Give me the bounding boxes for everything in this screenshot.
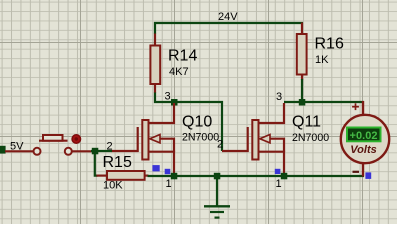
R16 top pin: [301, 23, 303, 36]
wire 5V to button: [5, 150, 34, 152]
pin 2 gate wire: [112, 150, 139, 152]
wire button right contact to junction: [72, 150, 92, 152]
R15 body: [107, 171, 145, 180]
svg-text:4K7: 4K7: [169, 66, 189, 78]
channel bar: [252, 120, 258, 160]
transistor Q11: [248, 103, 330, 177]
voltmeter + mark: [352, 103, 359, 110]
pushbutton left contact: [34, 148, 41, 155]
drain stub: [259, 103, 285, 123]
R15 left pin: [97, 175, 108, 177]
gate electrode: [137, 127, 139, 152]
wire 24V top rail: [154, 22, 303, 24]
node junction 3 (Q10 drain): [171, 99, 178, 106]
pushbutton cap: [43, 135, 63, 141]
resistor R14: [150, 34, 197, 94]
terminal 5V power stub: [0, 146, 6, 154]
source stub: [259, 152, 285, 177]
svg-text:24V: 24V: [218, 11, 238, 23]
R14 bottom pin: [154, 84, 156, 93]
R16 bottom pin: [301, 75, 303, 81]
svg-text:1K: 1K: [315, 54, 329, 66]
svg-text:Q10: Q10: [182, 113, 212, 130]
svg-text:R16: R16: [315, 36, 344, 53]
transistor Q10: [112, 103, 220, 177]
channel bar: [142, 120, 148, 160]
node junction ground tap: [214, 173, 221, 180]
svg-text:Volts: Volts: [350, 144, 377, 156]
voltmeter body: [341, 115, 389, 163]
wire junction to Q10 gate: [91, 150, 112, 152]
ground symbol: [204, 176, 230, 218]
voltmeter - mark: [353, 171, 360, 173]
svg-text:3: 3: [165, 91, 171, 103]
wire rail to R14 top: [154, 22, 156, 34]
node junction at gate/R15: [92, 148, 99, 155]
voltmeter + pin: [362, 101, 364, 115]
gate electrode: [247, 127, 249, 152]
svg-text:1: 1: [276, 178, 282, 190]
mid stub: [270, 139, 284, 152]
wire junction to Q11 drain: [284, 101, 302, 103]
resistor R16: [297, 23, 344, 81]
voltmeter - pin: [362, 164, 364, 177]
source stub: [149, 152, 175, 177]
R16 body: [297, 34, 307, 75]
R15 right pin: [145, 175, 149, 177]
bulk arrow: [150, 135, 160, 143]
wire drain junction to Q11 gate: [174, 102, 222, 151]
resistor R15: [97, 154, 149, 192]
svg-text:2: 2: [217, 139, 223, 151]
marker blue square 4: [365, 172, 371, 179]
node junction Q10 source: [171, 173, 178, 180]
marker blue square 1: [152, 165, 159, 171]
wire ground rail: [148, 175, 365, 177]
svg-text:R15: R15: [103, 154, 132, 171]
marker blue square 3: [275, 169, 281, 174]
R14 top pin: [154, 34, 156, 47]
wire junction down to R15: [95, 151, 98, 176]
svg-text:+0.02: +0.02: [350, 130, 378, 142]
wire R16 bottom to junction: [301, 79, 303, 103]
drain stub: [149, 103, 175, 123]
pushbutton interactive red button: [72, 135, 81, 144]
wire R14 bottom to drain junction: [155, 93, 175, 103]
svg-text:Q11: Q11: [292, 114, 321, 131]
svg-text:2N7000: 2N7000: [182, 131, 219, 143]
node junction Q11 source: [281, 173, 288, 180]
mid stub: [160, 139, 174, 152]
pushbutton right contact: [65, 148, 72, 155]
wire junction to voltmeter +: [302, 101, 364, 103]
svg-text:3: 3: [276, 91, 282, 103]
wire gate pin Q11: [222, 150, 249, 152]
pushbutton actuator bar: [39, 140, 68, 142]
bulk arrow: [260, 135, 270, 143]
svg-text:R14: R14: [168, 48, 197, 65]
R14 body: [150, 46, 160, 85]
voltmeter display window: [347, 128, 381, 142]
svg-text:1: 1: [166, 178, 172, 190]
svg-text:10K: 10K: [103, 180, 123, 192]
node junction 3 (Q11 drain): [299, 99, 306, 106]
svg-text:2N7000: 2N7000: [292, 132, 329, 144]
marker blue square 2: [165, 169, 171, 174]
